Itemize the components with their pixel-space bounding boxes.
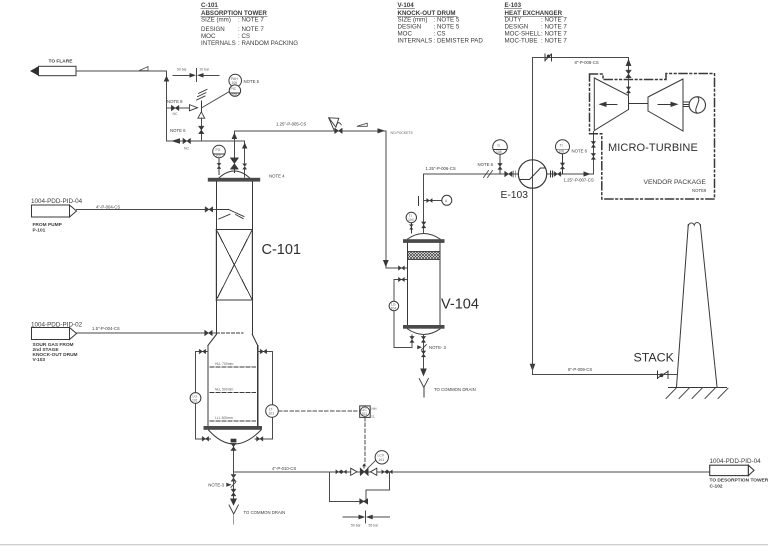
signal line LT to LIC — [278, 410, 359, 412]
instrument TI-104 — [406, 212, 416, 233]
svg-text:V-103: V-103 — [33, 357, 46, 363]
svg-text:: NOTE 7: : NOTE 7 — [238, 17, 264, 24]
feed pipe from pump — [77, 207, 217, 212]
heat exchanger E-103 — [518, 57, 546, 365]
svg-text:: NOTE 7: : NOTE 7 — [541, 38, 567, 45]
generator — [689, 97, 705, 113]
LCV station gate valves right — [382, 470, 393, 474]
C-101 packing section — [216, 230, 252, 301]
vendor package boundary — [590, 74, 715, 200]
V-104 overhead riser — [422, 174, 426, 234]
gate valve on overhead pipe — [335, 123, 342, 134]
off-page connector TO FLARE — [30, 59, 76, 76]
svg-text:TO COMMON DRAIN: TO COMMON DRAIN — [244, 510, 286, 515]
svg-text:100: 100 — [232, 81, 238, 85]
bottoms pipe 4"-P-010-CS — [234, 466, 710, 472]
svg-text:50 bar: 50 bar — [351, 524, 361, 528]
C-101 column shell — [208, 182, 258, 426]
svg-text:PIC: PIC — [231, 87, 237, 91]
svg-text:: NOTE 7: : NOTE 7 — [541, 17, 567, 24]
svg-text:E-103: E-103 — [505, 2, 522, 9]
locked-closed pennant on overhead valve — [329, 118, 339, 130]
exhaust down leg to stack — [530, 364, 677, 375]
overhead pipe 1.25"-P-005-CS — [234, 121, 385, 131]
turbine inlet riser — [591, 132, 595, 175]
svg-text:TO DESORPTION TOWER: TO DESORPTION TOWER — [710, 478, 768, 484]
svg-text:: NOTE 5: : NOTE 5 — [434, 24, 460, 31]
spec break symbol top — [173, 68, 219, 82]
NLL level line — [210, 388, 256, 393]
svg-text:NOTE 5: NOTE 5 — [244, 79, 260, 84]
svg-text:1004-PDD-PID-04: 1004-PDD-PID-04 — [710, 458, 762, 465]
svg-text:1.5"-P-004-CS: 1.5"-P-004-CS — [92, 326, 120, 331]
svg-text:E-103: E-103 — [501, 190, 529, 201]
svg-text:105: 105 — [496, 150, 502, 154]
svg-text:VENDOR PACKAGE: VENDOR PACKAGE — [644, 179, 707, 186]
spec break on P-006 — [484, 171, 493, 178]
drop leg to V-104 — [383, 131, 408, 270]
check valve before stack — [658, 371, 669, 378]
relief header — [167, 140, 245, 142]
stack — [677, 223, 718, 387]
svg-text:P-101: P-101 — [33, 228, 46, 234]
svg-text:DESIGN: DESIGN — [398, 24, 422, 31]
svg-text:LLL 300mm: LLL 300mm — [215, 416, 233, 420]
svg-text:TO FLARE: TO FLARE — [49, 59, 74, 65]
E-103 spec text block — [505, 2, 568, 45]
svg-text:101: 101 — [379, 458, 385, 462]
stack foundation — [666, 388, 728, 399]
svg-text:: NOTE 7: : NOTE 7 — [541, 31, 567, 38]
svg-text:DESIGN: DESIGN — [201, 26, 225, 33]
svg-text:55 bar: 55 bar — [369, 524, 379, 528]
svg-text:104: 104 — [391, 307, 397, 311]
PSV relief valve — [189, 89, 207, 118]
svg-text:C-101: C-101 — [201, 2, 218, 9]
NC valve to PSV — [167, 105, 190, 116]
feed distributor inside C-101 — [216, 209, 244, 219]
svg-text:C-102: C-102 — [710, 484, 723, 490]
drain funnel V-104 — [419, 379, 428, 398]
svg-text:NOTE 8: NOTE 8 — [167, 99, 183, 104]
instrument LG-104 — [389, 301, 399, 311]
LLL level line — [210, 416, 256, 421]
sour gas feed pipe — [77, 330, 244, 335]
svg-text:SIZE (mm): SIZE (mm) — [201, 17, 231, 24]
V-104 top flange bar — [403, 239, 445, 243]
svg-text:: NOTE 7: : NOTE 7 — [541, 24, 567, 31]
svg-text:: DEMISTER PAD: : DEMISTER PAD — [434, 38, 484, 45]
flow slope flag on overhead pipe — [357, 123, 367, 126]
svg-text:V-104: V-104 — [441, 297, 479, 313]
svg-text:LCV: LCV — [378, 454, 385, 458]
svg-text:DESIGN: DESIGN — [505, 24, 529, 31]
bottom page border — [0, 544, 768, 545]
svg-text:4"-P-010-CS: 4"-P-010-CS — [272, 466, 296, 471]
svg-text:C-101: C-101 — [262, 242, 302, 258]
svg-text:NOTE 6: NOTE 6 — [170, 128, 186, 133]
gate valve before E-103 — [505, 171, 516, 177]
signal line LIC to LCV — [364, 417, 366, 464]
C-101 top flange bar — [208, 178, 260, 182]
shaft compressor-turbine — [629, 103, 649, 105]
LCV station gate valves left — [336, 470, 347, 474]
svg-text:V-104: V-104 — [398, 2, 415, 9]
NC gate valve on header — [183, 138, 190, 150]
svg-text:1004-PDD-PID-04: 1004-PDD-PID-04 — [31, 198, 83, 205]
instrument LIC-101 shared display — [360, 406, 377, 419]
svg-text:: RANDOM PACKING: : RANDOM PACKING — [238, 40, 298, 47]
flow arrow into drop leg — [378, 128, 385, 133]
svg-text:NOTE 6: NOTE 6 — [572, 149, 588, 154]
svg-text:PG: PG — [216, 148, 221, 152]
svg-text:20 bar: 20 bar — [200, 68, 210, 72]
instrument LCV-101 bubble — [375, 451, 388, 464]
svg-text:INTERNALS: INTERNALS — [201, 40, 236, 47]
instrument PAH (top circle) — [229, 74, 242, 87]
exhaust pipe 8"-P-008-CS — [533, 57, 629, 65]
V-104 level standpipe upper nozzle — [394, 277, 408, 347]
C-101 top dome — [216, 171, 252, 181]
HLL level line — [210, 362, 256, 367]
svg-text:NC: NC — [184, 147, 189, 151]
spec break bottom — [343, 511, 389, 528]
svg-text:100: 100 — [216, 154, 222, 158]
svg-text:NC: NC — [173, 112, 178, 116]
instrument PG-100 — [213, 145, 226, 174]
turbine exhaust riser — [626, 57, 632, 96]
svg-text:1.25"-P-006-CS: 1.25"-P-006-CS — [426, 166, 456, 171]
V-104 dome top — [408, 234, 441, 240]
LT standpipe right of C-101 — [255, 349, 273, 441]
instrument TI-105 — [493, 140, 508, 174]
LG standpipe left of C-101 — [196, 349, 211, 441]
V-104 spec text block — [398, 2, 484, 45]
svg-text:STACK: STACK — [634, 351, 675, 365]
svg-text:NOTE-3: NOTE-3 — [208, 482, 224, 487]
svg-text:NOTE 6: NOTE 6 — [478, 162, 494, 167]
svg-text:NOTE 4: NOTE 4 — [269, 174, 285, 179]
svg-text:: NOTE 5: : NOTE 5 — [434, 17, 460, 24]
svg-text:LL: LL — [372, 415, 376, 419]
instrument LT-101 — [266, 405, 279, 418]
svg-text:DUTY: DUTY — [505, 17, 522, 24]
compressor — [594, 78, 628, 131]
svg-text:8"-P-009-CS: 8"-P-009-CS — [568, 367, 592, 372]
svg-text:: NOTE 7: : NOTE 7 — [238, 26, 264, 33]
C-101 bottom flange bar — [204, 426, 263, 430]
svg-text:MOC: MOC — [201, 33, 216, 40]
svg-text:TI: TI — [560, 144, 563, 148]
V-104 standpipe bottom return — [394, 335, 414, 348]
svg-text:NLL 500mm: NLL 500mm — [215, 388, 234, 392]
C-101 drain branch to common drain — [226, 472, 237, 506]
riser from C-101 vent valve to header — [242, 141, 247, 177]
svg-text:: CS: : CS — [434, 31, 446, 38]
reducer left — [351, 468, 357, 475]
check valve on exhaust pipe — [545, 54, 552, 61]
svg-text:106: 106 — [559, 150, 565, 154]
flow arrow up on flare riser — [164, 76, 170, 82]
svg-text:101: 101 — [192, 399, 198, 403]
svg-text:TI: TI — [497, 144, 500, 148]
off-page connector FROM PUMP P-101 — [31, 198, 83, 234]
svg-text:104: 104 — [408, 218, 414, 222]
off-page connector SOUR GAS — [31, 322, 83, 364]
svg-text:TO COMMON DRAIN: TO COMMON DRAIN — [434, 387, 476, 392]
C-101 spec text block — [201, 2, 298, 47]
svg-text:MOC: MOC — [398, 31, 413, 38]
svg-text:NOTE9: NOTE9 — [692, 188, 707, 193]
flow slope flag on flare line — [139, 67, 148, 71]
instrument PIC (lower circle) — [229, 85, 240, 97]
generator shaft — [683, 102, 689, 106]
svg-text:100: 100 — [232, 93, 238, 97]
signal line to pressure instruments — [201, 92, 229, 108]
C-101 overhead riser — [232, 131, 238, 158]
C-101 bottom dome — [209, 430, 262, 444]
V-104 dome bottom — [408, 329, 441, 335]
overhead pipe 1.25"-P-006-CS — [424, 166, 519, 174]
svg-text:1.25"-P-005-CS: 1.25"-P-005-CS — [276, 121, 306, 126]
svg-text:MOC-SHELL: MOC-SHELL — [505, 31, 542, 38]
V-104 bottom drain — [417, 335, 427, 377]
svg-text:INTERNALS: INTERNALS — [398, 38, 433, 45]
svg-text:50 bar: 50 bar — [177, 68, 187, 72]
instrument LG-101 — [190, 393, 201, 404]
reducer right — [371, 468, 377, 475]
V-104 demister pad — [408, 252, 441, 260]
sample point on riser — [418, 197, 441, 206]
svg-text:4"-P-004-CS: 4"-P-004-CS — [96, 204, 120, 209]
flow arrow left on header — [171, 138, 180, 144]
drain funnel C-101 — [229, 505, 238, 524]
off-page connector TO DESORPTION TOWER — [710, 458, 768, 490]
svg-text:MOC-TUBE: MOC-TUBE — [505, 38, 538, 45]
PSV inlet stub with valve — [199, 118, 204, 141]
svg-text:HLL 700mm: HLL 700mm — [215, 362, 234, 366]
instrument A (analyzer) — [442, 195, 452, 205]
svg-text:MICRO-TURBINE: MICRO-TURBINE — [608, 142, 698, 154]
V-104 shell — [408, 243, 441, 325]
svg-text:1.25"-P-007-CS: 1.25"-P-007-CS — [564, 178, 594, 183]
svg-text:NO POCKETS: NO POCKETS — [391, 131, 414, 135]
V-104 bottom flange bar — [403, 325, 445, 329]
svg-text:8"-P-008-CS: 8"-P-008-CS — [575, 60, 599, 65]
C-101 bottom drain valve — [231, 439, 237, 472]
svg-text:101: 101 — [269, 412, 275, 416]
instrument TI-106 — [556, 140, 570, 174]
bypass loop at LCV station — [330, 472, 390, 504]
turbine — [648, 79, 683, 131]
svg-text:NOTE- 3: NOTE- 3 — [429, 345, 447, 350]
svg-text:FROM PUMP: FROM PUMP — [33, 222, 63, 228]
C-101 overhead big valve — [230, 158, 238, 173]
svg-text:101: 101 — [362, 412, 368, 416]
svg-text:HH: HH — [372, 407, 377, 411]
svg-text:SIZE (mm): SIZE (mm) — [398, 17, 428, 24]
flare riser — [166, 71, 168, 141]
svg-text:: CS: : CS — [238, 33, 250, 40]
control valve LCV-101 — [360, 460, 376, 476]
pipe 1.25"-P-007-CS — [547, 171, 594, 183]
pipe to flare — [76, 70, 167, 72]
